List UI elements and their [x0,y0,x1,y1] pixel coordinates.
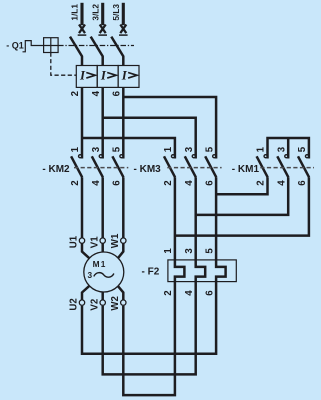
svg-text:4: 4 [276,180,287,186]
svg-text:I: I [100,67,107,82]
svg-text:1/L1: 1/L1 [70,4,80,21]
svg-text:5: 5 [204,146,215,152]
svg-text:3: 3 [91,146,102,152]
svg-text:5: 5 [112,146,123,152]
svg-text:2: 2 [163,290,174,295]
svg-text:V2: V2 [89,299,100,311]
svg-text:I: I [121,67,128,82]
svg-text:1: 1 [163,248,174,254]
svg-text:U2: U2 [69,298,80,310]
svg-text:4: 4 [184,290,195,296]
svg-text:- KM2: - KM2 [42,164,70,175]
svg-text:1: 1 [256,146,267,152]
svg-text:U1: U1 [69,235,80,248]
svg-text:1: 1 [163,146,174,152]
svg-text:V1: V1 [89,236,100,248]
svg-text:W1: W1 [110,233,121,248]
svg-text:I: I [79,67,86,82]
svg-text:2: 2 [256,180,267,185]
svg-text:2: 2 [70,91,81,96]
svg-text:- KM1: - KM1 [232,164,260,175]
svg-text:- F2: - F2 [142,266,160,277]
svg-text:4: 4 [91,180,102,186]
svg-text:3: 3 [184,146,195,152]
svg-text:6: 6 [112,90,123,96]
svg-text:5/L3: 5/L3 [111,4,121,21]
svg-text:4: 4 [91,90,102,96]
svg-text:M1: M1 [93,259,107,269]
svg-text:3: 3 [88,270,94,280]
svg-text:- KM3: - KM3 [134,164,162,175]
svg-text:5: 5 [297,146,308,152]
svg-text:6: 6 [204,180,215,186]
svg-text:W2: W2 [110,296,121,311]
svg-text:3: 3 [184,248,195,254]
svg-text:4: 4 [184,180,195,186]
svg-text:6: 6 [112,180,123,186]
svg-text:- Q1: - Q1 [6,41,24,51]
svg-text:2: 2 [70,180,81,185]
svg-text:3: 3 [276,146,287,152]
svg-text:5: 5 [204,248,215,254]
svg-text:6: 6 [204,290,215,296]
svg-text:3/L2: 3/L2 [90,4,100,21]
svg-text:2: 2 [163,180,174,185]
svg-text:6: 6 [297,180,308,186]
svg-text:1: 1 [70,146,81,152]
